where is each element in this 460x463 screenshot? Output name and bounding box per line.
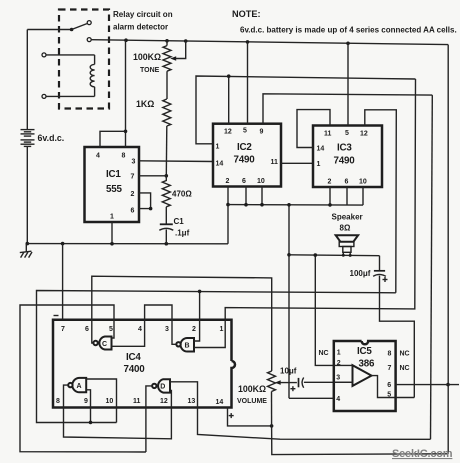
node pin2 pin6 strap bbox=[149, 207, 153, 211]
svg-text:1: 1 bbox=[337, 350, 341, 357]
wire IC1 pin3 to IC2 pin14 bbox=[139, 160, 213, 163]
wire VCC top rail bbox=[91, 40, 448, 45]
label tone pot bbox=[133, 52, 161, 74]
svg-text:3: 3 bbox=[336, 375, 340, 382]
resistor 1K bbox=[163, 99, 171, 176]
label 470 ohm bbox=[172, 190, 192, 199]
svg-text:5: 5 bbox=[109, 326, 113, 333]
svg-text:7: 7 bbox=[61, 326, 65, 333]
svg-text:1: 1 bbox=[317, 161, 321, 168]
svg-text:8: 8 bbox=[122, 153, 126, 160]
pin 5 label IC5 bbox=[387, 392, 391, 399]
node relay common junction bbox=[70, 28, 74, 32]
potentiometer 100K VOLUME bbox=[268, 371, 276, 426]
capacitor C1 .1uf bbox=[159, 224, 173, 243]
svg-text:IC3: IC3 bbox=[337, 143, 352, 154]
svg-text:1KΩ: 1KΩ bbox=[136, 99, 154, 109]
tone pot wiper arrow bbox=[170, 41, 186, 61]
pin 6 label IC5 bbox=[387, 382, 391, 389]
wire ground rail branch down at x289 bbox=[288, 205, 290, 398]
pin 9 label IC4 bbox=[84, 398, 88, 405]
relay enclosure dashed box bbox=[59, 10, 109, 109]
pin 10 label IC2 bbox=[257, 178, 265, 185]
label IC1 bbox=[106, 169, 122, 195]
label IC2 bbox=[234, 142, 256, 166]
svg-text:100KΩ: 100KΩ bbox=[238, 384, 266, 394]
wire gate C input pin5 bbox=[20, 305, 146, 452]
capacitor 10uf plates bbox=[299, 378, 304, 388]
pin 2 label IC4 bbox=[192, 326, 196, 333]
counter IC2 7490 box bbox=[213, 124, 281, 187]
nand gate C bbox=[93, 337, 111, 350]
svg-text:3: 3 bbox=[165, 326, 169, 333]
wire 10uf to IC5 pin3 bbox=[304, 381, 353, 383]
pin 6 label IC3 bbox=[345, 179, 349, 186]
node ground rail at C1 bbox=[165, 242, 169, 246]
label NC pin1 bbox=[319, 350, 329, 357]
pin 5 label IC2 bbox=[243, 128, 247, 135]
wire IC5 pin3 internal bbox=[334, 381, 353, 383]
wire IC3 pin6 drop bbox=[346, 187, 348, 205]
potentiometer 100K TONE bbox=[163, 41, 171, 99]
svg-text:D: D bbox=[160, 384, 165, 391]
wire speaker line bbox=[289, 254, 380, 257]
wire IC3 pin14 to pin11 bracket bbox=[297, 110, 330, 148]
svg-text:7400: 7400 bbox=[124, 364, 146, 375]
svg-text:6v.d.c.: 6v.d.c. bbox=[38, 133, 65, 143]
nand gate A bbox=[68, 378, 86, 392]
pin 2 label IC2 bbox=[226, 178, 230, 185]
label volume pot bbox=[237, 384, 267, 405]
svg-text:.1μf: .1μf bbox=[175, 229, 190, 238]
svg-text:alarm detector: alarm detector bbox=[113, 23, 168, 32]
wire left supply bus lower bbox=[26, 146, 28, 243]
wire IC4 pin7 riser to ground rail bbox=[62, 244, 64, 320]
svg-text:6: 6 bbox=[85, 326, 89, 333]
svg-text:IC2: IC2 bbox=[237, 142, 252, 153]
pin 4 label IC1 bbox=[96, 153, 100, 160]
label NC pin8 bbox=[400, 350, 410, 357]
svg-text:6: 6 bbox=[345, 179, 349, 186]
pin 7 label IC4 bbox=[61, 326, 65, 333]
svg-text:555: 555 bbox=[106, 184, 122, 195]
nand gate B bbox=[176, 338, 194, 352]
node IC2 pin10 bbox=[260, 203, 264, 207]
label 10uf bbox=[280, 367, 297, 376]
wire IC3 pin10 drop bbox=[362, 187, 364, 205]
wire IC1 pin8 riser from rail bbox=[125, 40, 127, 147]
svg-text:6v.d.c. battery is made up of: 6v.d.c. battery is made up of 4 series c… bbox=[240, 26, 457, 35]
wire IC3 pin2 drop bbox=[329, 187, 331, 205]
pin 14 label IC2 bbox=[216, 161, 224, 168]
wire link to IC5 pin2 bus bbox=[315, 255, 334, 365]
node rail at IC1 pin8 riser bbox=[124, 38, 128, 42]
svg-text:Speaker: Speaker bbox=[332, 213, 363, 222]
quad NAND IC4 7400 box with right edge notch bbox=[53, 320, 235, 408]
wire gate A output pin8 drop and rail to pin12 bbox=[64, 385, 172, 439]
node gate A pin9 on loop rail bbox=[89, 421, 93, 425]
nand gate D bbox=[152, 379, 170, 392]
svg-text:9: 9 bbox=[84, 398, 88, 405]
pin 12 label IC2 bbox=[224, 129, 232, 136]
wire IC2 pin5 riser to rail bbox=[247, 42, 249, 124]
wire IC5 pin4 ground loop bbox=[289, 397, 334, 399]
pin 3 label IC4 bbox=[165, 326, 169, 333]
relay switch arm bbox=[72, 21, 92, 30]
svg-text:8Ω: 8Ω bbox=[340, 224, 351, 233]
wire IC2 pin6 drop bbox=[245, 187, 247, 205]
wire IC5 output to pin5 bbox=[372, 376, 415, 398]
pin 4 label IC4 bbox=[138, 326, 142, 333]
node IC3 pin2 bbox=[328, 203, 332, 207]
pin 1 label IC4 bbox=[220, 326, 224, 333]
wire IC3 pin5 riser to rail bbox=[347, 43, 349, 125]
speaker SP1 8 ohm bbox=[335, 235, 359, 255]
svg-text:1: 1 bbox=[220, 326, 224, 333]
pin 1 label IC1 bbox=[110, 214, 114, 221]
node speaker left lead bbox=[342, 254, 345, 257]
pin 7 label IC1 bbox=[131, 174, 135, 181]
wire IC4 pin1 line handled above; wire right bus from VCC rail corner bbox=[447, 45, 449, 454]
pin 7 label IC5 bbox=[388, 365, 392, 372]
wire gate D output pin11 drop to outer left wrap bbox=[146, 386, 152, 452]
svg-text:B: B bbox=[185, 343, 190, 350]
node battery to ground rail bbox=[26, 242, 30, 246]
resistor 470 ohm bbox=[162, 176, 170, 224]
svg-text:2: 2 bbox=[131, 191, 135, 198]
pin 2 label IC3 bbox=[328, 179, 332, 186]
svg-text:1: 1 bbox=[110, 214, 114, 221]
svg-text:386: 386 bbox=[359, 359, 375, 370]
wire bus right from IC2 pin9 net down bbox=[431, 95, 433, 439]
node pin8 riser split bbox=[124, 130, 128, 134]
node rail at tone pot top bbox=[165, 39, 169, 43]
counter IC3 7490 box bbox=[313, 126, 382, 188]
node speaker right lead bbox=[349, 254, 352, 257]
pin 1 label IC2 bbox=[216, 144, 220, 151]
svg-text:1: 1 bbox=[216, 144, 220, 151]
svg-text:14: 14 bbox=[317, 146, 325, 153]
pin 14 label IC4 bbox=[216, 399, 224, 406]
svg-text:11: 11 bbox=[271, 159, 279, 166]
svg-text:8: 8 bbox=[56, 398, 60, 405]
capacitor 100uf wire upper bbox=[379, 256, 381, 271]
node 1K bottom at IC1 pin7 bbox=[165, 174, 169, 178]
svg-text:4: 4 bbox=[96, 153, 100, 160]
wire IC2 pin9 riser bbox=[263, 94, 432, 124]
polarity plus 10uf bbox=[290, 386, 295, 391]
node pot bottom junction bbox=[270, 424, 274, 428]
pin 2 label IC1 bbox=[131, 191, 135, 198]
pin 6 label IC1 bbox=[131, 208, 135, 215]
node right bus at IC5 pin6 line bbox=[446, 383, 450, 387]
svg-text:C: C bbox=[102, 341, 107, 348]
svg-text:6: 6 bbox=[387, 382, 391, 389]
label 1K bbox=[136, 99, 154, 109]
svg-text:9: 9 bbox=[260, 129, 264, 136]
pin 10 label IC4 bbox=[106, 398, 114, 405]
pin 6 label IC2 bbox=[242, 178, 246, 185]
wire IC4 pin14 supply bbox=[228, 408, 272, 426]
svg-text:10: 10 bbox=[106, 398, 114, 405]
node rail at tone wiper riser bbox=[184, 39, 188, 43]
wire IC3 pin12 riser to right bus bbox=[365, 110, 397, 293]
svg-text:2: 2 bbox=[226, 178, 230, 185]
node IC2 pin6 bbox=[244, 203, 248, 207]
wire IC2 pin12 riser bbox=[228, 76, 230, 124]
svg-text:NOTE:: NOTE: bbox=[232, 9, 261, 19]
pin 13 label IC4 bbox=[188, 398, 196, 405]
pin 8 label IC5 bbox=[388, 350, 392, 357]
polarity plus at pin14 bbox=[229, 413, 234, 418]
relay coil terminal upper bbox=[42, 53, 95, 57]
wire gate C input pin4 to gate B output pin3 bracket bbox=[112, 305, 177, 346]
wire IC1 pin4 jumper bbox=[100, 131, 126, 147]
svg-text:Relay circuit on: Relay circuit on bbox=[113, 10, 173, 19]
wire IC5 pin6 output line to right edge bbox=[396, 384, 459, 386]
svg-text:10: 10 bbox=[359, 179, 367, 186]
pin 3 label IC1 bbox=[132, 159, 136, 166]
label IC4 bbox=[124, 352, 146, 375]
label relay caption bbox=[113, 10, 173, 32]
wire ground rail bbox=[27, 243, 228, 245]
node speaker line at branch bbox=[287, 253, 291, 257]
svg-text:14: 14 bbox=[216, 161, 224, 168]
ground bbox=[20, 244, 32, 258]
pin 11 label IC2 bbox=[271, 159, 279, 166]
svg-text:7490: 7490 bbox=[234, 155, 256, 166]
svg-text:100μf: 100μf bbox=[350, 269, 371, 278]
svg-text:470Ω: 470Ω bbox=[172, 190, 192, 199]
volume pot wiper arrow bbox=[275, 380, 297, 385]
svg-text:VOLUME: VOLUME bbox=[237, 398, 267, 405]
minus sign at pin7 bbox=[54, 315, 59, 317]
wire gate B input pin2 riser bbox=[194, 291, 200, 341]
wire left supply bus upper bbox=[26, 30, 28, 130]
svg-text:10μf: 10μf bbox=[280, 367, 297, 376]
svg-text:2: 2 bbox=[328, 179, 332, 186]
wire gate A input pin9 bbox=[86, 390, 90, 423]
node ground rail at IC1 pin1 bbox=[110, 242, 114, 246]
pin 2 label IC5 bbox=[337, 360, 341, 367]
op-amp triangle IC5 bbox=[353, 365, 372, 386]
battery B1 6v.d.c. bbox=[21, 130, 35, 147]
pin 12 label IC3 bbox=[360, 131, 368, 138]
pin 11 label IC3 bbox=[324, 131, 332, 138]
label note text bbox=[240, 26, 457, 35]
svg-text:A: A bbox=[77, 383, 82, 390]
svg-text:7: 7 bbox=[388, 365, 392, 372]
svg-text:IC4: IC4 bbox=[126, 352, 141, 363]
wire IC2 pin1 loop bbox=[196, 76, 416, 144]
svg-text:SeekIC.com: SeekIC.com bbox=[392, 448, 453, 460]
pin 8 label IC4 bbox=[56, 398, 60, 405]
wire IC2 pin10 drop bbox=[261, 187, 263, 205]
svg-text:7490: 7490 bbox=[334, 156, 356, 167]
svg-text:5: 5 bbox=[345, 130, 349, 137]
svg-text:IC1: IC1 bbox=[106, 169, 121, 180]
pin 1 label IC3 bbox=[317, 161, 321, 168]
svg-text:NC: NC bbox=[319, 350, 329, 357]
wire IC1 pin1 to ground rail bbox=[111, 222, 113, 244]
node gate B pin2 on cross line bbox=[198, 290, 202, 294]
label 100uf bbox=[350, 269, 371, 278]
op-timer IC1 555 box bbox=[85, 147, 140, 222]
wire gate A input pin10 loop bbox=[86, 379, 116, 423]
wire 100uf lower to IC5 pin5 bbox=[380, 276, 415, 398]
wire net from IC3 pin12 bus across to left bbox=[37, 291, 396, 423]
pin 3 label IC5 bbox=[336, 375, 340, 382]
svg-text:12: 12 bbox=[224, 129, 232, 136]
svg-text:5: 5 bbox=[243, 128, 247, 135]
svg-text:13: 13 bbox=[188, 398, 196, 405]
pin 5 label IC3 bbox=[345, 130, 349, 137]
svg-text:2: 2 bbox=[192, 326, 196, 333]
node IC2 pin2 on bottom rail bbox=[226, 203, 230, 207]
label IC5 bbox=[357, 346, 375, 370]
svg-text:12: 12 bbox=[360, 131, 368, 138]
label IC3 bbox=[334, 143, 356, 167]
wire IC2 IC3 bottom rail bbox=[228, 204, 363, 207]
svg-text:100KΩ: 100KΩ bbox=[133, 52, 161, 62]
svg-text:10: 10 bbox=[257, 178, 265, 185]
svg-text:11: 11 bbox=[133, 398, 141, 405]
wire gate B input pin1 riser bbox=[194, 320, 225, 348]
wire IC5 pin2 internal bbox=[334, 364, 353, 366]
node ground rail at IC4 pin7 riser bbox=[61, 242, 65, 246]
svg-text:6: 6 bbox=[242, 178, 246, 185]
wire IC1 pin2 pin6 strap bbox=[139, 193, 151, 209]
svg-text:3: 3 bbox=[132, 159, 136, 166]
pin 11 label IC4 bbox=[133, 398, 141, 405]
capacitor 100uf plates bbox=[373, 271, 386, 277]
amplifier IC5 386 box with top notch bbox=[334, 341, 396, 411]
relay coil terminal lower bbox=[42, 94, 95, 98]
pin 12 label IC4 bbox=[160, 398, 168, 405]
label speaker bbox=[332, 213, 363, 233]
wire battery positive to relay common bbox=[27, 29, 71, 31]
node IC2 pin12 net bbox=[227, 74, 231, 78]
node rail at IC2 pin5 riser bbox=[246, 40, 250, 44]
pin 14 label IC3 bbox=[317, 146, 325, 153]
wire gate D input pin13 to right bus bbox=[170, 382, 431, 440]
svg-text:4: 4 bbox=[138, 326, 142, 333]
wire IC2 pin11 to IC3 pin1 bbox=[281, 162, 313, 164]
svg-text:7: 7 bbox=[131, 174, 135, 181]
node branch on bottom rail bbox=[287, 203, 291, 207]
watermark SeekIC.com bbox=[392, 448, 453, 460]
polarity plus 100uf bbox=[383, 277, 388, 282]
wire IC2 pin2 drop and link to ground rail bbox=[227, 187, 229, 244]
wire pot bottom down to lower supply rail bbox=[272, 426, 448, 455]
svg-text:6: 6 bbox=[131, 208, 135, 215]
pin 4 label IC5 bbox=[336, 396, 340, 403]
pin 9 label IC2 bbox=[260, 129, 264, 136]
label battery value bbox=[38, 133, 65, 143]
pin 5 label IC4 bbox=[109, 326, 113, 333]
svg-text:NC: NC bbox=[400, 365, 410, 372]
pin 6 label IC4 bbox=[85, 326, 89, 333]
pin 8 label IC1 bbox=[122, 153, 126, 160]
wire gate C output pin6 riser and top link bbox=[92, 276, 272, 371]
svg-text:IC5: IC5 bbox=[357, 346, 372, 357]
node speaker line at IC5 pin2 bus bbox=[314, 253, 318, 257]
node rail at IC3 pin5 riser bbox=[346, 42, 350, 46]
label NC pin7 bbox=[400, 365, 410, 372]
svg-text:NC: NC bbox=[400, 350, 410, 357]
pin 10 label IC3 bbox=[359, 179, 367, 186]
svg-text:C1: C1 bbox=[174, 217, 185, 226]
wire IC1 pin7 bbox=[139, 175, 166, 177]
relay switch output contact bbox=[87, 38, 91, 42]
relay coil L1 bbox=[90, 55, 94, 97]
label NOTE heading bbox=[232, 9, 261, 19]
label C1 bbox=[174, 217, 190, 238]
svg-text:4: 4 bbox=[336, 396, 340, 403]
svg-text:11: 11 bbox=[324, 131, 332, 138]
wire bus right from IC2 pin1 net down to IC4 pin1 line bbox=[225, 79, 415, 320]
svg-text:TONE: TONE bbox=[140, 67, 160, 74]
pin 1 label IC5 bbox=[337, 350, 341, 357]
svg-text:8: 8 bbox=[388, 350, 392, 357]
svg-text:12: 12 bbox=[160, 398, 168, 405]
svg-text:14: 14 bbox=[216, 399, 224, 406]
